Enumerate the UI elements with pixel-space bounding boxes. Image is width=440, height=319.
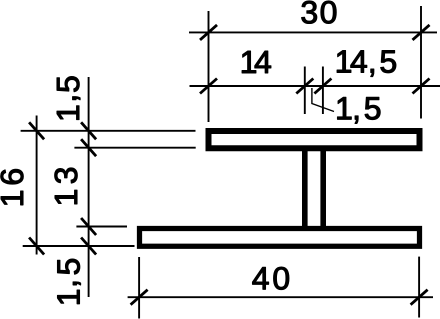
label 30 bbox=[302, 1, 337, 24]
label 1,5 (top flange) bbox=[57, 77, 80, 120]
tick 16 top bbox=[29, 122, 44, 139]
tick 14 left bbox=[200, 79, 217, 94]
tick 14,5 right bbox=[413, 79, 430, 94]
H-profile: web right wall bbox=[320, 151, 326, 227]
dimension line 14 / 14,5 bbox=[190, 85, 440, 87]
label 40 bbox=[253, 267, 289, 290]
tick 30 right bbox=[413, 25, 430, 40]
extension line web left face bbox=[304, 67, 306, 115]
extension line 40 right bbox=[418, 257, 420, 318]
dimension line 30 bbox=[189, 31, 437, 33]
tick 30 left bbox=[200, 25, 217, 40]
tick top flange inner bbox=[81, 139, 96, 156]
dimension line 16 (left outer) bbox=[36, 116, 38, 255]
H-profile: top flange (30 wide, 1.5 thick) bbox=[209, 131, 420, 148]
H-profile: bottom flange (40 wide, 1.5 thick) bbox=[140, 229, 420, 247]
extension line bottom flange top edge bbox=[76, 226, 127, 228]
tick top flange outer bbox=[81, 122, 96, 139]
dimension line 1,5 / 13 / 1,5 (left inner) bbox=[88, 77, 90, 297]
extension line bottom flange bottom edge bbox=[23, 245, 135, 247]
extension line 30 right bbox=[420, 6, 422, 119]
extension line web right face bbox=[322, 67, 324, 115]
extension line 40 left bbox=[138, 257, 140, 319]
tick 40 right bbox=[411, 290, 428, 305]
dimension line 40 bbox=[128, 296, 433, 298]
tick bottom flange inner bbox=[81, 218, 96, 235]
label 13 bbox=[55, 168, 78, 204]
extension line top flange bottom edge bbox=[74, 147, 195, 149]
label 14,5 bbox=[337, 51, 396, 77]
extension line 30 left bbox=[208, 11, 210, 122]
label 1,5 (bottom flange) bbox=[58, 259, 81, 304]
tick 40 left bbox=[131, 290, 148, 305]
H-profile: web left wall bbox=[302, 151, 308, 227]
tick web left bbox=[296, 79, 313, 94]
tick bottom flange outer bbox=[81, 238, 96, 255]
label 1,5 (web) bbox=[338, 97, 381, 123]
label 14 bbox=[242, 51, 271, 73]
tick web right bbox=[314, 79, 331, 94]
leader line for web thickness 1,5 bbox=[312, 88, 334, 112]
tick 16 bottom bbox=[29, 238, 44, 255]
label 16 bbox=[1, 169, 24, 205]
extension line top flange top edge bbox=[21, 130, 196, 132]
